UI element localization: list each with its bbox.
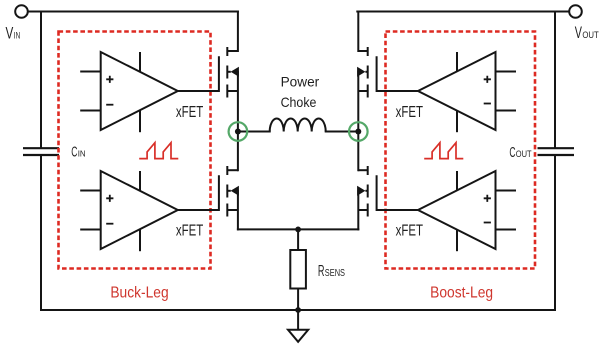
transistor Q4 (boost low-side MOSFET) bbox=[358, 166, 418, 217]
wire left leg upper drain bbox=[237, 12, 239, 52]
op-amp U2 (buck bottom driver) bbox=[80, 171, 178, 251]
op-amp U1 minus bbox=[106, 104, 113, 106]
wire inductor right lead bbox=[326, 131, 355, 133]
boost-leg dashed box bbox=[386, 32, 536, 269]
wire RSENS bottom lead bbox=[297, 289, 299, 311]
wire right column COUT to bottom rail bbox=[554, 156, 556, 310]
wire left leg lower bbox=[237, 191, 239, 230]
svg-text:V: V bbox=[575, 24, 582, 42]
wire top rail right bbox=[357, 11, 569, 13]
wire left leg middle bbox=[237, 72, 239, 170]
node source bus junction bbox=[295, 227, 301, 233]
op-amp U3 (boost top driver) bbox=[418, 52, 516, 132]
svg-text:Choke: Choke bbox=[281, 94, 317, 110]
svg-text:SENS: SENS bbox=[325, 268, 345, 279]
svg-text:OUT: OUT bbox=[516, 149, 532, 159]
wire right leg lower bbox=[357, 191, 359, 230]
node ground junction bbox=[295, 307, 301, 313]
buck-leg dashed box bbox=[59, 32, 211, 269]
node SW2 (green) bbox=[349, 122, 368, 141]
capacitor CIN bbox=[23, 148, 59, 155]
svg-text:IN: IN bbox=[78, 148, 86, 158]
node SW1 (green) bbox=[229, 122, 248, 141]
svg-text:xFET: xFET bbox=[396, 223, 424, 240]
resistor RSENS bbox=[290, 250, 306, 289]
wire left input drop to CIN bbox=[40, 12, 42, 148]
wire bottom rail bbox=[41, 309, 555, 311]
wire right leg middle bbox=[357, 72, 359, 170]
svg-text:xFET: xFET bbox=[396, 104, 424, 121]
svg-text:Power: Power bbox=[281, 74, 320, 90]
transistor Q2 (buck low-side MOSFET) bbox=[178, 166, 238, 217]
waveform ramp left (red) bbox=[139, 143, 178, 159]
wire RSENS top lead bbox=[297, 229, 299, 250]
svg-text:C: C bbox=[71, 143, 77, 160]
inductor L1 power choke bbox=[270, 119, 326, 132]
op-amp U2 plus bbox=[106, 195, 113, 202]
svg-text:xFET: xFET bbox=[176, 104, 204, 121]
svg-text:C: C bbox=[509, 144, 515, 161]
wire left column CIN to bottom rail bbox=[40, 156, 42, 310]
svg-text:IN: IN bbox=[14, 31, 20, 41]
svg-text:Buck-Leg: Buck-Leg bbox=[110, 284, 168, 301]
op-amp U1 (buck top driver) bbox=[80, 52, 178, 132]
wire inductor left lead bbox=[241, 131, 270, 133]
ground bbox=[288, 330, 308, 342]
op-amp U3 plus bbox=[484, 76, 491, 83]
svg-text:xFET: xFET bbox=[176, 223, 204, 240]
capacitor COUT bbox=[538, 148, 575, 155]
wire right column VOUT to COUT bbox=[554, 12, 556, 148]
op-amp U2 minus bbox=[106, 223, 113, 225]
op-amp U4 minus bbox=[484, 222, 491, 224]
wire ground lead bbox=[297, 310, 299, 330]
transistor Q3 (boost high-side MOSFET) bbox=[358, 47, 418, 98]
svg-text:V: V bbox=[6, 25, 14, 43]
waveform ramp right (red) bbox=[424, 143, 463, 159]
svg-text:R: R bbox=[318, 263, 325, 280]
wire top rail left bbox=[28, 11, 238, 13]
op-amp U1 plus bbox=[106, 76, 113, 83]
op-amp U4 (boost bottom driver) bbox=[418, 171, 516, 251]
svg-text:OUT: OUT bbox=[582, 30, 599, 41]
wire bottom leg connecting sources bbox=[238, 228, 358, 230]
terminal VIN bbox=[15, 5, 28, 18]
op-amp U4 plus bbox=[484, 195, 491, 202]
op-amp U3 minus bbox=[484, 103, 491, 105]
wire right leg upper drain bbox=[357, 12, 359, 52]
terminal VOUT bbox=[569, 5, 582, 18]
transistor Q1 (buck high-side MOSFET) bbox=[178, 47, 238, 98]
svg-text:Boost-Leg: Boost-Leg bbox=[430, 284, 493, 301]
